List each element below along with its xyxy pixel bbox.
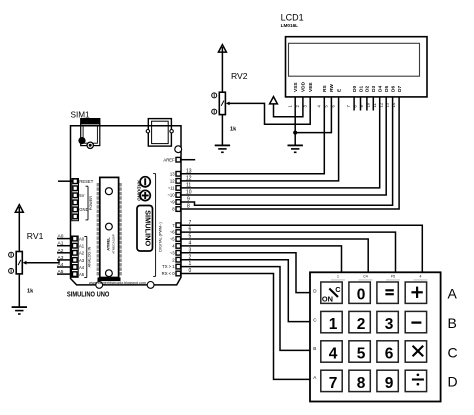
svg-text:RW: RW	[329, 84, 335, 92]
svg-text:F5: F5	[391, 275, 395, 279]
RV1 ground	[12, 306, 27, 308]
svg-text:~11: ~11	[168, 186, 175, 191]
arduino board SIM1	[71, 126, 182, 285]
svg-text:2: 2	[189, 254, 192, 260]
RESET stub wire	[58, 180, 73, 182]
LCD unconnected stubs D0-D3	[354, 97, 373, 111]
svg-text:D3: D3	[371, 86, 377, 92]
svg-text:A3: A3	[79, 258, 85, 263]
button 1	[321, 311, 342, 332]
svg-text:A5: A5	[58, 269, 64, 275]
left power header strip	[72, 179, 79, 221]
svg-text:C: C	[335, 285, 341, 294]
ground under LCD	[288, 144, 303, 146]
svg-text:10: 10	[186, 190, 192, 196]
RV1 power arrow	[15, 205, 23, 213]
analog stub wires	[57, 239, 73, 275]
svg-text:8: 8	[357, 375, 366, 392]
button equals	[377, 282, 398, 303]
svg-text:D: D	[448, 374, 458, 390]
RV2 top wire	[221, 47, 223, 92]
svg-text:1: 1	[189, 261, 192, 267]
svg-text:0: 0	[189, 268, 192, 274]
svg-text:9: 9	[187, 197, 190, 203]
svg-text:ATMEL: ATMEL	[106, 237, 111, 251]
svg-text:D0: D0	[352, 86, 358, 92]
wire RW to ground junction	[295, 97, 331, 133]
RV1 wiper wire to A3	[27, 260, 60, 263]
svg-text:RV1: RV1	[27, 231, 44, 241]
svg-text:B: B	[448, 315, 457, 331]
svg-text:~9: ~9	[170, 200, 175, 205]
svg-text:VEE: VEE	[308, 82, 314, 92]
wire 5 to keypad col2	[181, 239, 369, 272]
svg-text:AREF: AREF	[163, 158, 175, 163]
svg-text:B: B	[313, 346, 316, 351]
button 2	[349, 311, 370, 332]
svg-text:GND: GND	[79, 207, 88, 212]
svg-text:12: 12	[186, 175, 192, 181]
svg-text:A1: A1	[79, 244, 85, 249]
button 8	[349, 370, 370, 391]
RV2 ground	[215, 144, 230, 146]
digital bracket	[155, 174, 157, 277]
svg-text:SIM1: SIM1	[71, 110, 91, 119]
AREF stub wire	[181, 159, 196, 161]
svg-text:11: 11	[186, 183, 191, 189]
digital pins inside labels 7-0	[162, 223, 176, 276]
svg-text:D2: D2	[365, 86, 371, 92]
wire 0 to keypad row A	[181, 274, 310, 380]
simulino logo box	[137, 206, 153, 252]
keypad body	[310, 272, 441, 401]
usb connector	[146, 119, 173, 147]
wire 1 to keypad row B	[181, 267, 310, 351]
svg-text:D1: D1	[358, 86, 364, 92]
power arrow VDD	[270, 97, 278, 104]
power jack	[81, 119, 100, 146]
svg-text:13: 13	[186, 168, 192, 174]
LCD body	[286, 37, 428, 97]
wire 13 to LCD RS	[181, 97, 325, 174]
svg-text:D7: D7	[397, 86, 403, 92]
digital header pins 13-8	[176, 172, 181, 212]
svg-text:6: 6	[189, 227, 192, 233]
keypad tiny column labels	[337, 275, 422, 279]
microcontroller chip ATMEGA328P	[97, 183, 100, 186]
svg-text:D4: D4	[378, 86, 384, 92]
svg-text:RV2: RV2	[231, 71, 248, 81]
svg-text:5V: 5V	[79, 193, 84, 198]
svg-text:5: 5	[357, 345, 366, 362]
RV1 wiper arrow	[23, 261, 27, 265]
LCD pin names	[293, 81, 403, 92]
button minus	[405, 311, 426, 332]
svg-text:www.blogembarcado.blogspot.com: www.blogembarcado.blogspot.com	[89, 281, 146, 285]
svg-text:~5: ~5	[170, 237, 175, 242]
digital header pins 7-0	[176, 223, 181, 276]
svg-text:7: 7	[329, 375, 338, 392]
svg-text:D5: D5	[384, 86, 390, 92]
button 6	[377, 341, 398, 362]
svg-text:8: 8	[187, 204, 190, 210]
RV2 terminal circles	[212, 93, 217, 98]
svg-text:7: 7	[189, 220, 192, 226]
svg-text:RS: RS	[322, 85, 328, 92]
RV2 wiper arrow	[226, 102, 230, 106]
svg-text:4: 4	[189, 241, 192, 247]
svg-text:3: 3	[189, 247, 192, 253]
svg-text:POWER: POWER	[89, 196, 93, 211]
svg-text:4: 4	[420, 275, 422, 279]
wire 3 to keypad row D	[181, 253, 310, 293]
svg-text:ARDUINO: ARDUINO	[137, 180, 142, 201]
button ON/C	[321, 282, 342, 303]
LCD pin numbers	[287, 102, 396, 107]
svg-text:RX < 0: RX < 0	[162, 271, 176, 276]
RV2 bottom wire to ground	[221, 115, 223, 145]
svg-text:12: 12	[170, 179, 175, 184]
RV1 body	[16, 252, 22, 274]
analog inside labels	[79, 237, 85, 278]
svg-text:A0: A0	[79, 237, 85, 242]
AREF pin	[176, 157, 181, 162]
svg-text:ANALOG IN: ANALOG IN	[88, 246, 92, 267]
RV1 terminal circles	[9, 252, 14, 257]
svg-text:A4: A4	[79, 265, 85, 270]
wire VSS to ground	[294, 97, 296, 145]
wire 12 to LCD E	[181, 97, 339, 181]
wire VDD to power	[274, 97, 303, 117]
wire 10 to LCD D5	[181, 97, 387, 195]
svg-text:1k: 1k	[230, 127, 237, 133]
wire 11 to LCD D4	[181, 97, 380, 188]
button 9	[377, 370, 398, 391]
button 4	[321, 341, 342, 362]
svg-text:D6: D6	[390, 86, 396, 92]
ANALOG IN bracket	[86, 237, 88, 278]
svg-text:SIMULINO: SIMULINO	[144, 210, 153, 246]
svg-text:6: 6	[385, 345, 394, 362]
svg-text:C4: C4	[363, 275, 368, 279]
svg-text:LCD1: LCD1	[281, 12, 304, 22]
wire 7 to keypad col4	[181, 225, 423, 272]
wire 4 to keypad col1	[181, 246, 342, 272]
svg-text:1: 1	[337, 275, 339, 279]
keypad row letters	[448, 286, 458, 390]
svg-text:ATMEGA328P: ATMEGA328P	[112, 234, 116, 253]
svg-text:4: 4	[329, 345, 338, 362]
button divide	[405, 370, 426, 391]
wire 9 to LCD D6	[181, 97, 393, 205]
button 5	[349, 341, 370, 362]
svg-text:A2: A2	[58, 248, 64, 254]
svg-text:~6: ~6	[170, 230, 175, 235]
RV2 power arrow	[218, 45, 226, 53]
button 0	[349, 282, 370, 303]
button 3	[377, 311, 398, 332]
svg-text:TX > 1: TX > 1	[162, 264, 175, 269]
wire 8 to LCD D7	[181, 97, 400, 209]
board mounting bump circles	[96, 282, 103, 289]
RV1 top wire	[18, 207, 20, 252]
LCD screen	[289, 43, 420, 76]
svg-text:9: 9	[385, 375, 394, 392]
wire 6 to keypad col3	[181, 232, 396, 272]
digital pins inside labels 13-8	[167, 171, 175, 211]
svg-text:~3: ~3	[170, 250, 175, 255]
svg-text:~10: ~10	[167, 193, 175, 198]
svg-text:VDD: VDD	[301, 81, 307, 92]
analog header strip	[72, 236, 79, 277]
svg-text:A: A	[448, 286, 458, 302]
svg-text:A1: A1	[58, 241, 64, 247]
svg-text:RESET: RESET	[79, 179, 93, 184]
svg-text:VSS: VSS	[293, 82, 299, 92]
svg-text:A2: A2	[79, 251, 85, 256]
svg-text:3: 3	[385, 316, 394, 333]
keypad tiny row labels	[313, 288, 317, 380]
svg-text:13: 13	[170, 171, 175, 176]
mounting hole	[175, 146, 182, 153]
button multiply	[405, 341, 426, 362]
svg-text:ON: ON	[322, 295, 333, 304]
analog stub labels	[58, 234, 64, 276]
svg-text:2: 2	[357, 316, 366, 333]
POWER bracket	[87, 186, 89, 220]
svg-text:DIGITAL (PWM~): DIGITAL (PWM~)	[158, 222, 162, 252]
trim circle vertical-bar	[140, 177, 150, 187]
wire VEE to RV2 wiper	[229, 97, 310, 124]
svg-text:C: C	[448, 344, 458, 360]
trim circle plus	[140, 190, 150, 200]
svg-text:SIMULINO UNO: SIMULINO UNO	[67, 291, 110, 298]
svg-text:0: 0	[357, 287, 366, 304]
svg-text:1: 1	[329, 316, 338, 333]
svg-text:A5: A5	[79, 272, 85, 277]
RV2 body	[219, 92, 225, 114]
button 7	[321, 370, 342, 391]
svg-text:A0: A0	[58, 234, 64, 240]
keypad column pin marks	[331, 279, 428, 281]
RV1 bottom wire to ground	[18, 274, 20, 307]
svg-text:1k: 1k	[27, 289, 34, 295]
left header labels	[79, 179, 93, 212]
junction VSS/RW	[293, 131, 297, 135]
svg-text:5: 5	[189, 234, 192, 240]
svg-text:LM016L: LM016L	[281, 23, 299, 28]
button plus	[405, 282, 426, 303]
wire 2 to keypad row C	[181, 260, 310, 322]
